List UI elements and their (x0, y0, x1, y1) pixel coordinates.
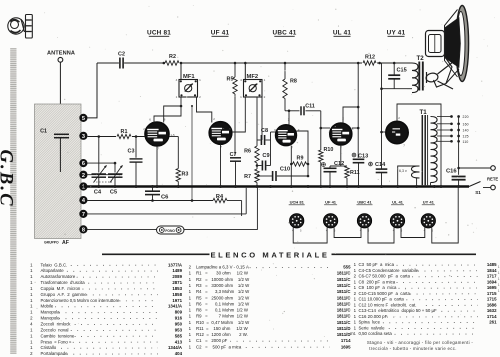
svg-text:Coppia M.F. micron: Coppia M.F. micron (41, 286, 81, 291)
wire tube right pin to R3 (169, 136, 178, 138)
capacitor C13 (electrolytic) (352, 153, 356, 157)
wire to mains terminal (459, 167, 491, 169)
wire C11 to R10/UL41 grid (320, 111, 322, 150)
tap 140 (437, 129, 452, 131)
svg-text:mt.: mt. (350, 331, 356, 336)
tube UF41 (V2) (209, 122, 232, 145)
loudspeaker (426, 6, 469, 88)
AVC line node4 with R4 (88, 200, 214, 202)
svg-text:1858: 1858 (172, 292, 182, 297)
tap 160 (437, 123, 452, 125)
svg-text:1811/C: 1811/C (337, 289, 352, 294)
svg-text:R9: R9 (297, 156, 304, 162)
svg-text:C1: C1 (40, 129, 47, 135)
svg-text:6,3 v: 6,3 v (399, 169, 407, 173)
svg-text:5: 5 (82, 116, 85, 122)
MF2 secondary to tube (232, 97, 246, 132)
svg-text:1695: 1695 (341, 344, 351, 349)
svg-text:MF2: MF2 (247, 74, 259, 80)
svg-text:950: 950 (175, 322, 183, 327)
svg-text:585: 585 (175, 333, 183, 338)
svg-text:C8 200 pF a mica: C8 200 pF a mica (359, 279, 396, 284)
svg-text:GRUPPO: GRUPPO (44, 241, 59, 245)
wire antenna down (59, 62, 61, 133)
cathode node UL41 (330, 145, 341, 166)
MF1 secondary to UF41 grid (197, 97, 212, 123)
tube UCH81 (V1) (145, 122, 169, 146)
svg-text:UL 41: UL 41 (392, 200, 404, 205)
svg-text:1695: 1695 (487, 285, 497, 290)
capacitor C12 (electrolytic) (322, 163, 326, 167)
svg-text:8: 8 (82, 228, 85, 234)
capacitor C6 (152, 188, 154, 191)
svg-text:3: 3 (82, 134, 85, 140)
svg-text:1811/D: 1811/D (337, 332, 351, 337)
svg-text:R8: R8 (290, 79, 297, 85)
wire tube cathode to bus (156, 146, 158, 185)
svg-text:1717: 1717 (487, 274, 497, 279)
svg-text:R10 = 0,47 Mohm 1/2 W: R10 = 0,47 Mohm 1/2 W (196, 320, 250, 325)
svg-text:T1: T1 (420, 109, 428, 116)
node 5 (79, 114, 87, 122)
top supply line (97, 62, 119, 64)
cathode stub UY41 (382, 131, 386, 133)
svg-text:R1 = 30 ohm 1/2 W: R1 = 30 ohm 1/2 W (196, 271, 249, 276)
svg-text:7: 7 (82, 212, 85, 218)
svg-text:1632: 1632 (487, 308, 497, 313)
svg-text:UY 41: UY 41 (423, 200, 435, 205)
svg-text:Autotrasformatore: Autotrasformatore (41, 274, 76, 279)
svg-text:C8: C8 (261, 128, 268, 134)
svg-text:C3: C3 (128, 149, 135, 155)
plate wires to MF1 (154, 97, 181, 123)
T2 primary (407, 62, 412, 64)
UY41 plate to T1 (397, 104, 441, 185)
svg-text:261: 261 (489, 320, 497, 325)
svg-text:1811/C: 1811/C (337, 277, 352, 282)
svg-text:R3 = 33000 ohm 1/2 W: R3 = 33000 ohm 1/2 W (196, 283, 250, 288)
node 6 (79, 159, 87, 167)
B+ vertical from R12 to C14 (381, 63, 383, 169)
FONO socket (157, 226, 185, 234)
GBC page logo (8, 15, 33, 39)
svg-text:1489: 1489 (172, 268, 182, 273)
page edge strip (10, 48, 16, 354)
svg-text:Cristallo: Cristallo (41, 345, 57, 350)
svg-text:Manopole: Manopole (41, 316, 61, 321)
svg-text:UL 41: UL 41 (333, 30, 352, 37)
svg-text:1686: 1686 (487, 302, 497, 307)
tap 125 (437, 135, 452, 137)
svg-text:Zoccoli rimlock: Zoccoli rimlock (41, 322, 72, 327)
svg-text:809: 809 (175, 310, 183, 315)
svg-text:C12 10 micro F elettrolit. c: C12 10 micro F elettrolit. cat. (359, 302, 417, 307)
svg-text:Spina luce: Spina luce (359, 320, 381, 325)
svg-text:R3: R3 (182, 172, 189, 178)
wire cathode down (290, 146, 292, 186)
svg-text:1971: 1971 (172, 298, 182, 303)
capacitor C11 (285, 110, 300, 112)
svg-text:1714: 1714 (341, 338, 351, 343)
grid stub UL41 (321, 127, 330, 129)
node 4 (79, 196, 87, 204)
switch S1 (469, 182, 481, 187)
svg-text:C9: C9 (262, 153, 269, 159)
svg-text:C13-C14 elettrolitico doppio: C13-C14 elettrolitico doppio 50 + 50 µF (359, 308, 438, 313)
svg-text:UF 41: UF 41 (211, 30, 230, 37)
svg-text:220: 220 (463, 115, 469, 119)
svg-text:R12 = 1200 ohm 2 W.: R12 = 1200 ohm 2 W. (196, 332, 248, 337)
svg-text:Altoparlante: Altoparlante (41, 268, 65, 273)
svg-text:Cambio tensione: Cambio tensione (41, 333, 75, 338)
node 3 (79, 132, 87, 140)
svg-text:R6: R6 (244, 149, 251, 155)
svg-text:1341/A: 1341/A (168, 304, 183, 309)
T1 heater winding 6,3V (412, 166, 420, 178)
svg-text:Trasformatore d'uscita: Trasformatore d'uscita (41, 280, 86, 285)
svg-text:R8 = 0,1 Mohm 1/2 W: R8 = 0,1 Mohm 1/2 W (196, 308, 249, 313)
svg-text:1844: 1844 (487, 268, 497, 273)
wire C1 down (59, 138, 61, 172)
variable capacitor C5 (108, 173, 123, 175)
svg-text:C9 100 pF a mica: C9 100 pF a mica (359, 285, 397, 290)
node 2 (79, 171, 87, 179)
tap 220 (437, 116, 452, 118)
svg-text:R4 = 3,3 Mohm 1/2 W: R4 = 3,3 Mohm 1/2 W (196, 289, 250, 294)
svg-text:Stagno - viti - ancoraggi - fi: Stagno - viti - ancoraggi - filo per col… (367, 340, 474, 345)
svg-text:C16 20.000 pF: C16 20.000 pF (359, 314, 388, 319)
svg-text:916: 916 (175, 316, 183, 321)
svg-text:C6-C7 50.000 pF a carta: C6-C7 50.000 pF a carta (359, 274, 411, 279)
B+ vertical to C13 (357, 63, 359, 158)
svg-text:953: 953 (175, 327, 183, 332)
svg-text:2871: 2871 (172, 280, 182, 285)
variable capacitor C4 (92, 173, 107, 175)
capacitor C3 (135, 137, 137, 158)
svg-text:FONO: FONO (165, 229, 175, 233)
svg-text:R5: R5 (227, 77, 234, 83)
svg-text:140: 140 (463, 129, 469, 133)
svg-text:C11: C11 (305, 104, 315, 110)
svg-text:1811/C: 1811/C (337, 283, 352, 288)
svg-text:160: 160 (463, 122, 469, 126)
svg-text:1: 1 (498, 289, 500, 293)
wire FONO to bus (184, 188, 258, 230)
svg-text:C1 = 2000 pF: C1 = 2000 pF (196, 338, 228, 343)
svg-text:Manopola: Manopola (41, 310, 61, 315)
screen wire UL41 (343, 107, 358, 123)
svg-text:C16: C16 (446, 169, 457, 175)
AVC line down (191, 106, 193, 201)
wire UBC41 diode plate (297, 131, 309, 176)
vertical grid wire (270, 132, 272, 166)
heater winding leads (398, 166, 420, 185)
IF transformer MF2 (244, 80, 263, 98)
svg-text:UF 41: UF 41 (325, 200, 337, 205)
svg-text:1: 1 (498, 265, 500, 269)
svg-text:1377/A: 1377/A (168, 262, 183, 267)
svg-text:1811/C: 1811/C (337, 314, 352, 319)
svg-text:C10: C10 (280, 167, 290, 173)
svg-text:Gruppo A.F. 2 gamme: Gruppo A.F. 2 gamme (41, 292, 88, 297)
svg-text:Serie valvole: Serie valvole (359, 325, 386, 330)
line node7 (88, 213, 247, 215)
line node8 to FONO (88, 228, 157, 230)
svg-text:R7: R7 (244, 174, 251, 180)
svg-text:555: 555 (343, 265, 351, 270)
svg-text:C3 50 pF a mica: C3 50 pF a mica (359, 262, 395, 267)
svg-text:ELENCO MATERIALE: ELENCO MATERIALE (210, 250, 329, 259)
svg-text:2: 2 (82, 173, 85, 179)
svg-text:S1: S1 (475, 190, 481, 195)
wire topline to MF2 (244, 63, 246, 80)
wire node3 line to tube (grid) (88, 136, 146, 138)
IF transformer MF1 (179, 80, 198, 98)
main chassis bus (83, 185, 469, 188)
svg-text:R6 = 0,1 Mohm 1/2 W: R6 = 0,1 Mohm 1/2 W (196, 301, 250, 306)
svg-text:Presa « Fono »: Presa « Fono » (41, 339, 72, 344)
tube UL41 (V4) (330, 123, 352, 145)
svg-text:C10-C15 5000 pF a carta: C10-C15 5000 pF a carta (359, 291, 411, 296)
svg-text:C4: C4 (94, 190, 102, 196)
node 1 (79, 182, 87, 190)
svg-text:Telaio G.B.C.: Telaio G.B.C. (41, 262, 68, 267)
svg-text:UBC 41: UBC 41 (357, 200, 372, 205)
svg-text:1714: 1714 (487, 314, 497, 319)
svg-text:C12: C12 (334, 161, 344, 167)
svg-text:UCH 81: UCH 81 (290, 200, 305, 205)
svg-text:C2 = 500 pF a mica: C2 = 500 pF a mica (196, 344, 242, 349)
svg-text:Lampadine a 6,3 V - 0,15 A: Lampadine a 6,3 V - 0,15 A (196, 265, 249, 270)
svg-text:404: 404 (175, 351, 183, 356)
svg-text:G.B.C: G.B.C (0, 150, 16, 208)
svg-text:125: 125 (463, 135, 469, 139)
svg-text:C4-C5 Condensatore variabile: C4-C5 Condensatore variabile (359, 268, 419, 273)
plate stub UL41 (352, 127, 358, 129)
capacitor C14 (electrolytic) (369, 162, 373, 166)
gang dashed link (96, 181, 112, 183)
svg-text:RETE: RETE (487, 177, 498, 182)
svg-text:1715: 1715 (487, 297, 497, 302)
svg-text:1811/D: 1811/D (337, 326, 351, 331)
gruppo AF block (35, 104, 82, 239)
svg-text:Potenziometro 0,5 Mohm con int: Potenziometro 0,5 Mohm con interruttore (41, 298, 121, 303)
svg-text:1485: 1485 (487, 262, 497, 267)
svg-text:1811/C: 1811/C (337, 271, 352, 276)
wire branch to C4 (98, 137, 100, 173)
parts list divider + title (102, 253, 210, 255)
svg-text:1811/C: 1811/C (337, 320, 352, 325)
svg-text:R9 = 7 Mohm 1/2 W: R9 = 7 Mohm 1/2 W (196, 314, 249, 319)
tap 110 (437, 140, 452, 142)
svg-text:R2: R2 (169, 54, 176, 60)
wire R2 junction to MF1 (180, 63, 182, 80)
svg-text:R10: R10 (324, 147, 334, 153)
node 8 (79, 225, 87, 233)
T1 core (421, 115, 423, 185)
svg-text:1715: 1715 (487, 291, 497, 296)
svg-text:1: 1 (498, 283, 500, 287)
wire node2 to trimmer plates (88, 174, 123, 176)
voltage selector common (458, 117, 460, 175)
svg-text:C14: C14 (375, 162, 386, 168)
svg-text:ANTENNA: ANTENNA (47, 51, 75, 57)
svg-text:R5 = 25000 ohm 1/2 W: R5 = 25000 ohm 1/2 W (196, 295, 250, 300)
svg-text:UY 41: UY 41 (387, 30, 406, 37)
wire R5 to C7 (234, 94, 236, 156)
wire UF41 cathode to bus (220, 144, 222, 185)
svg-text:1: 1 (498, 271, 500, 275)
svg-text:1811/C: 1811/C (337, 301, 352, 306)
svg-text:Mobile: Mobile (41, 304, 54, 309)
svg-text:C5: C5 (110, 190, 117, 196)
svg-text:1344/A: 1344/A (168, 345, 183, 350)
svg-text:Portalampade: Portalampade (41, 351, 69, 356)
svg-text:1811/C: 1811/C (337, 295, 352, 300)
T1 main winding (431, 117, 438, 183)
svg-text:UBC 41: UBC 41 (273, 30, 297, 37)
T2 core (418, 62, 420, 91)
svg-text:1853: 1853 (172, 286, 182, 291)
wire UBC41 plate up (288, 111, 290, 125)
svg-text:2089: 2089 (172, 274, 182, 279)
svg-text:Zoccolo noval: Zoccolo noval (41, 327, 69, 332)
svg-text:110: 110 (463, 140, 469, 144)
winding bottom to bus (430, 183, 432, 186)
heater chain wires (293, 228, 327, 244)
svg-text:C6: C6 (161, 194, 169, 200)
svg-text:C15: C15 (397, 68, 407, 74)
svg-text:UCH 81: UCH 81 (147, 30, 171, 37)
svg-text:T2: T2 (417, 55, 425, 62)
MF2 right pin down to C8 (261, 97, 263, 140)
wire from node5 up to top line (88, 63, 98, 118)
svg-text:R2 = 10000 ohm 1/2 W: R2 = 10000 ohm 1/2 W (196, 277, 250, 282)
tube UY41 (V5) (386, 121, 408, 143)
svg-text:413: 413 (175, 339, 183, 344)
svg-text:1694: 1694 (487, 279, 497, 284)
svg-text:C2: C2 (118, 52, 125, 58)
svg-text:AF: AF (62, 240, 69, 246)
svg-text:C11 10.000 pF a carta: C11 10.000 pF a carta (359, 297, 405, 302)
svg-text:R11 = 150 ohm 1/2 W: R11 = 150 ohm 1/2 W (196, 326, 249, 331)
svg-text:trecciola - tubetto - minuteri: trecciola - tubetto - minuterie varie ec… (369, 346, 456, 351)
T2 secondary loop to speaker (425, 60, 455, 89)
svg-text:0,50 cordina seta: 0,50 cordina seta (359, 331, 393, 336)
wire node6 to C5 (88, 162, 116, 164)
svg-text:1811/C: 1811/C (337, 308, 352, 313)
node 7 (79, 210, 87, 218)
svg-text:6: 6 (82, 161, 85, 167)
svg-text:1: 1 (498, 277, 500, 281)
svg-text:MF1: MF1 (183, 74, 195, 80)
tube UBC41 (V3) (276, 125, 297, 146)
